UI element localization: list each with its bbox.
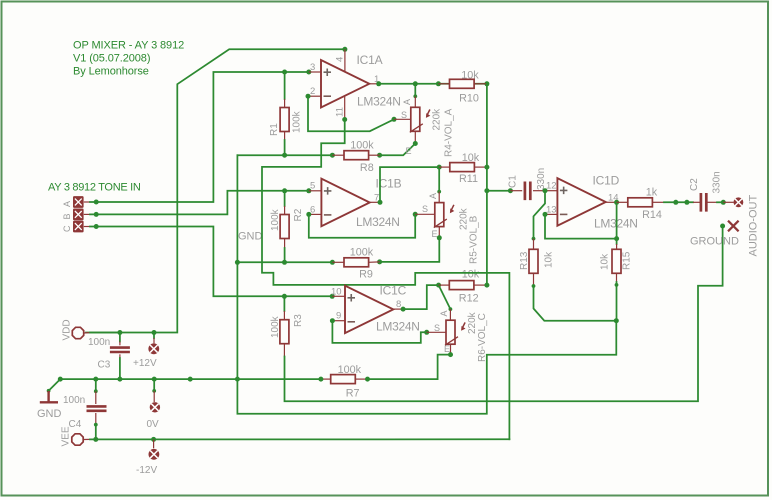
junction feedback node	[614, 236, 619, 241]
resistor R13 10k	[529, 249, 538, 273]
pin 7 output stub	[370, 201, 380, 203]
op-amp IC1B	[321, 179, 369, 227]
wire C3 bottom to 0V rail	[119, 358, 121, 379]
resistor R7 100k	[331, 375, 356, 384]
wire IC1A output to R10	[379, 83, 487, 85]
wire 0V GND rail left	[60, 378, 321, 380]
svg-text:R5-VOL_B: R5-VOL_B	[469, 215, 480, 264]
resistor R3 100k	[280, 320, 289, 344]
svg-text:IC1D: IC1D	[593, 174, 620, 188]
svg-text:E: E	[406, 146, 412, 156]
pad B connector	[73, 209, 84, 221]
junction R11 right on bus	[484, 165, 489, 170]
pin 5 stub	[309, 190, 322, 192]
junction R11 left / pot R5 A	[437, 165, 442, 170]
junction R9 right	[377, 259, 382, 264]
pin 14 output stub	[606, 201, 617, 203]
svg-text:13: 13	[546, 205, 557, 216]
junction R5 wiper S	[413, 212, 418, 217]
junction R15 bottom lead	[615, 283, 619, 287]
svg-text:A: A	[402, 99, 412, 105]
pin 8 output stub	[394, 308, 404, 310]
pad -12V	[149, 449, 160, 460]
svg-text:R9: R9	[359, 268, 373, 280]
svg-text:C1: C1	[508, 175, 519, 188]
svg-text:R12: R12	[459, 292, 479, 304]
wire R3 top branch	[283, 296, 285, 311]
svg-text:R10: R10	[459, 93, 479, 105]
wire R2 top branch	[284, 191, 286, 206]
svg-text:VEE: VEE	[61, 426, 72, 446]
junction R2 bottom	[282, 260, 287, 265]
svg-text:12: 12	[546, 181, 557, 192]
pin 4 lead IC1A	[344, 49, 346, 71]
junction R7 right	[365, 377, 370, 382]
svg-text:C3: C3	[98, 360, 111, 371]
resistor R8 100k	[344, 151, 369, 160]
svg-text:LM324N: LM324N	[376, 320, 420, 334]
svg-text:V1 (05.07.2008): V1 (05.07.2008)	[73, 52, 150, 64]
potentiometer R4-VOL_A 220k	[410, 107, 431, 132]
junction C1 left	[508, 188, 513, 193]
junction 0V pad	[152, 377, 157, 382]
svg-text:5: 5	[310, 181, 315, 192]
svg-text:A: A	[428, 193, 438, 199]
pad GROUND X symbol	[728, 221, 739, 232]
wire pad C to IC1C +input	[90, 227, 332, 297]
wire GND segment y262	[237, 261, 332, 263]
svg-text:R15: R15	[622, 251, 633, 270]
junction +12V pad on rail	[152, 330, 157, 335]
pot R5 E lead	[438, 227, 440, 238]
svg-text:B: B	[62, 213, 72, 219]
junction pin9	[330, 318, 335, 323]
junction R7 left	[318, 377, 323, 382]
wire diagonal to pot R6 A	[439, 285, 451, 309]
svg-text:R1: R1	[269, 123, 280, 136]
junction R13 bottom	[532, 284, 536, 288]
wire R2 bottom to GND	[284, 248, 286, 262]
wire VEE rail	[90, 438, 509, 440]
capacitor C1 330n	[525, 182, 530, 201]
resistor R9 100k	[344, 258, 369, 267]
svg-text:100k: 100k	[270, 315, 281, 338]
junction C3 top on +12V rail	[117, 330, 122, 335]
svg-text:E: E	[444, 344, 450, 354]
wire 0V GND rail right to pot R6 E	[368, 355, 451, 380]
pin 11 lead	[344, 96, 346, 120]
svg-text:100k: 100k	[350, 140, 374, 152]
potentiometer R6-VOL_C 220k	[445, 320, 466, 345]
svg-text:LM324N: LM324N	[356, 215, 400, 229]
wire GROUND net to R3 bottom	[285, 226, 723, 401]
junction pot R6 E	[448, 352, 453, 357]
svg-text:IC1A: IC1A	[357, 53, 383, 67]
junction R8 left	[330, 153, 335, 158]
junction pad A wire	[94, 200, 99, 205]
wire VDD to rail	[90, 332, 120, 334]
wire GND vertical bus and bottom path	[237, 155, 616, 414]
junction -12V pad	[151, 437, 156, 442]
resistor R10 10k	[450, 79, 475, 88]
capacitor C3 100n	[110, 348, 130, 352]
svg-text:GND: GND	[37, 408, 62, 420]
wire R14 to C2	[664, 201, 693, 203]
svg-text:+12V: +12V	[133, 358, 157, 369]
pot R6 E lead	[450, 344, 452, 354]
pad C connector	[73, 221, 84, 233]
wire IC1D -input loop	[545, 214, 617, 238]
junction pin6	[306, 212, 311, 217]
junction C4 top	[93, 377, 98, 382]
svg-text:S: S	[401, 110, 407, 120]
junction IC1D output	[614, 200, 619, 205]
junction R1 top	[282, 70, 287, 75]
junction AUDIO-OUT	[721, 200, 726, 205]
svg-text:GROUND: GROUND	[690, 236, 739, 248]
junction pot R4 A branch	[413, 81, 418, 86]
junction R3 top	[282, 294, 287, 299]
junction IC1A output	[376, 81, 381, 86]
wire +12V pad	[153, 333, 155, 339]
svg-text:A: A	[439, 310, 449, 316]
junction GND symbol	[47, 389, 51, 393]
junction R9 left	[330, 260, 335, 265]
pin 13 stub	[545, 213, 557, 215]
svg-text:C: C	[62, 225, 72, 232]
resistor R12 10k	[449, 281, 474, 290]
svg-text:10: 10	[331, 287, 342, 298]
wire to pot R4 A	[414, 84, 416, 97]
wire R15 bottom to GND node	[616, 282, 618, 321]
resistor R14 1k	[628, 198, 653, 207]
op-amp IC1C	[345, 286, 393, 334]
wire R13 bottom to GND node	[534, 286, 617, 321]
svg-text:E: E	[432, 229, 438, 239]
wire output to feedback node	[616, 202, 618, 238]
pin A pot R4	[413, 94, 417, 98]
potentiometer R5-VOL_B 220k	[434, 203, 455, 228]
junction C3 bottom	[117, 377, 122, 382]
svg-text:R14: R14	[642, 209, 662, 221]
wiper S stub R5	[415, 213, 435, 215]
junction R10 left	[436, 81, 441, 86]
wire IC1C output to R12	[403, 285, 439, 309]
svg-text:OP MIXER - AY 3 8912: OP MIXER - AY 3 8912	[73, 40, 184, 52]
junction GND node right	[614, 318, 619, 323]
svg-text:10k: 10k	[544, 251, 555, 268]
pin 6 stub	[309, 213, 322, 215]
junction R13 top	[532, 237, 536, 241]
junction R8 right	[377, 153, 382, 158]
junction IC1B pin5	[306, 188, 311, 193]
svg-text:C2: C2	[689, 178, 700, 191]
junction IC1A pin3	[306, 70, 311, 75]
svg-text:100k: 100k	[338, 364, 362, 376]
svg-text:S: S	[422, 204, 428, 214]
junction IC1C output	[401, 307, 406, 312]
junction C4 bottom on VEE rail	[93, 437, 98, 442]
wire IC1B output up to R11 row	[380, 167, 439, 202]
wire summing bus	[486, 84, 488, 285]
wire 0V pad	[153, 379, 155, 391]
svg-text:220k: 220k	[432, 108, 443, 131]
wire GND segment y155	[237, 154, 332, 156]
pad +12V	[148, 343, 159, 354]
svg-text:10k: 10k	[462, 269, 480, 281]
pad VDD circle	[72, 327, 83, 338]
svg-text:100k: 100k	[350, 247, 374, 259]
pin 9 stub	[332, 320, 345, 322]
svg-text:100n: 100n	[63, 395, 85, 406]
junction R12 left	[436, 283, 441, 288]
junction R2 top	[282, 188, 287, 193]
pot R4 E lead	[414, 131, 416, 143]
wire C4 bottom to VEE rail	[95, 425, 97, 440]
svg-text:GND: GND	[238, 231, 263, 243]
wire to GND symbol	[49, 379, 61, 391]
resistor R11 10k	[450, 163, 475, 172]
svg-text:R13: R13	[519, 251, 530, 270]
capacitor C4 100n	[87, 406, 107, 410]
junction wire joint 2	[684, 200, 689, 205]
pad VEE circle	[72, 434, 83, 445]
svg-text:10k: 10k	[600, 253, 611, 270]
svg-text:By Lemonhorse: By Lemonhorse	[73, 65, 149, 77]
wire pot R4 E to R8 right	[380, 144, 416, 156]
junction wire joint 1	[673, 200, 678, 205]
junction bus to C1	[484, 188, 489, 193]
resistor R15 10k	[612, 249, 621, 273]
svg-text:3: 3	[310, 62, 315, 73]
svg-text:4: 4	[335, 57, 346, 62]
svg-text:R11: R11	[459, 173, 478, 185]
wire R1 top branch	[284, 72, 286, 99]
svg-text:10k: 10k	[461, 70, 479, 82]
svg-text:R2: R2	[293, 208, 304, 221]
pin 3 stub	[309, 71, 321, 73]
svg-text:330n: 330n	[712, 171, 723, 193]
op-amp IC1D	[557, 178, 605, 226]
pad B stub	[84, 213, 90, 215]
wire VDD +12V rail to IC1A pin4	[86, 49, 345, 332]
junction GROUND pad	[720, 224, 725, 229]
wiper S stub R4	[394, 118, 411, 120]
svg-text:R6-VOL_C: R6-VOL_C	[477, 313, 488, 362]
pad AUDIO-OUT	[734, 197, 744, 207]
pin 1 output stub	[369, 83, 378, 85]
svg-text:10k: 10k	[462, 152, 480, 164]
wire VEE net IC1A pin11 to VEE rail	[262, 120, 509, 440]
junction IC1A pin11 to VEE path	[342, 117, 347, 122]
pad A stub	[84, 201, 90, 203]
svg-text:R8: R8	[360, 162, 374, 174]
junction C4 bottom lead	[94, 423, 98, 427]
resistor R1 100k	[280, 108, 289, 132]
wire IC1A -input to R4 wiper	[308, 96, 394, 131]
svg-text:S: S	[434, 323, 440, 333]
svg-text:A: A	[62, 201, 72, 207]
wire IC1B -input loop to R5 wiper	[309, 214, 415, 237]
junction R12 right on bus	[484, 283, 489, 288]
svg-text:R3: R3	[293, 314, 304, 327]
wire R1 bottom to GND line	[284, 140, 286, 155]
junction IC1C pin10	[330, 294, 335, 299]
wire to pot R5 A	[438, 167, 440, 192]
svg-text:1k: 1k	[646, 187, 658, 199]
wire pad A to IC1A +input	[90, 72, 309, 202]
junction R6 wiper S	[424, 330, 429, 335]
wire C4 top	[95, 379, 97, 391]
wire pad B to IC1B +input	[90, 191, 309, 215]
junction GND at 0V rail	[235, 377, 240, 382]
junction pot R4 E	[413, 141, 418, 146]
wire bus to C1	[487, 190, 511, 192]
svg-text:VDD: VDD	[62, 319, 73, 340]
wire end at IC1A pin4	[342, 47, 347, 52]
ground symbol	[40, 391, 58, 402]
svg-text:100n: 100n	[88, 337, 110, 348]
junction rail left end	[58, 377, 63, 382]
junction R10 right on bus	[484, 81, 489, 86]
pin A pot R6	[449, 307, 453, 311]
svg-text:IC1C: IC1C	[380, 284, 407, 298]
svg-text:100k: 100k	[292, 110, 303, 133]
pad 0V	[150, 402, 160, 412]
svg-text:AUDIO-OUT: AUDIO-OUT	[748, 195, 760, 257]
wire IC1D +input to R13	[534, 191, 546, 239]
svg-text:9: 9	[336, 311, 341, 322]
resistor R2 100k	[280, 215, 289, 239]
wiper S stub R6	[427, 331, 446, 333]
junction GND y262	[235, 260, 240, 265]
junction pin13	[543, 212, 548, 217]
wire IC1C -input loop to R6 wiper	[332, 321, 426, 343]
junction 0V lead	[152, 389, 156, 393]
junction IC1B output	[378, 200, 383, 205]
op-amp IC1A	[321, 60, 369, 108]
svg-text:11: 11	[335, 107, 346, 117]
pin 2 stub	[309, 95, 321, 97]
svg-text:2: 2	[310, 86, 315, 97]
junction pad B wire	[94, 212, 99, 217]
wire C2 to AUDIO-OUT	[717, 201, 723, 203]
junction R4 wiper S	[392, 117, 397, 122]
pin 10 stub	[332, 295, 345, 297]
junction pot R5 E	[437, 235, 442, 240]
junction C4 top lead	[94, 389, 98, 393]
wire to R15	[616, 239, 618, 244]
svg-text:R7: R7	[346, 387, 360, 399]
pin 12 stub	[545, 190, 557, 192]
junction pin12	[543, 188, 548, 193]
svg-text:0V: 0V	[147, 419, 160, 430]
wire pot R5 E to R9 right	[380, 238, 440, 262]
junction rail wire joint	[188, 377, 193, 382]
svg-text:AY 3 8912 TONE IN: AY 3 8912 TONE IN	[48, 182, 141, 194]
pin A pot R5	[437, 190, 441, 194]
svg-text:LM324N: LM324N	[357, 95, 401, 109]
svg-text:100k: 100k	[270, 208, 281, 231]
pad C stub	[84, 226, 90, 228]
junction pin2 wire	[306, 94, 311, 99]
svg-text:R4-VOL_A: R4-VOL_A	[444, 108, 455, 157]
svg-text:8: 8	[396, 299, 401, 310]
junction pad C wire	[94, 224, 99, 229]
wire C3 top	[119, 333, 121, 342]
pad A connector	[73, 196, 84, 208]
capacitor C2 330n	[701, 193, 706, 212]
svg-text:-12V: -12V	[136, 465, 157, 476]
junction R1 bottom	[282, 153, 287, 158]
